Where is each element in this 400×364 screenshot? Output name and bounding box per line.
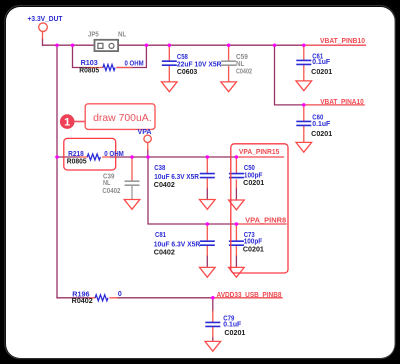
svg-text:0: 0 xyxy=(118,291,122,298)
svg-text:0 OHM: 0 OHM xyxy=(125,60,144,67)
svg-text:C0402: C0402 xyxy=(236,69,252,76)
svg-text:C38: C38 xyxy=(154,165,165,172)
svg-text:100pF: 100pF xyxy=(244,172,263,179)
svg-text:R218: R218 xyxy=(68,151,84,158)
svg-text:R0805: R0805 xyxy=(79,68,99,75)
svg-text:VBAT_PINB10: VBAT_PINB10 xyxy=(320,38,365,45)
svg-text:0.1uF: 0.1uF xyxy=(223,322,242,329)
svg-text:1: 1 xyxy=(64,117,70,129)
svg-text:AVDD33_USB_PINB8: AVDD33_USB_PINB8 xyxy=(217,292,282,299)
svg-text:C0402: C0402 xyxy=(154,250,175,257)
svg-text:NL: NL xyxy=(236,61,245,68)
svg-text:VBAT_PINA10: VBAT_PINA10 xyxy=(320,99,364,106)
svg-text:0.1uF: 0.1uF xyxy=(312,59,331,66)
svg-text:JP5: JP5 xyxy=(88,31,99,38)
svg-text:C0201: C0201 xyxy=(311,69,332,76)
svg-text:VPA_PINR8: VPA_PINR8 xyxy=(245,217,286,224)
svg-text:10uF 6.3V X5R: 10uF 6.3V X5R xyxy=(154,241,201,248)
svg-text:0 OHM: 0 OHM xyxy=(104,151,124,158)
svg-text:NL: NL xyxy=(118,31,127,38)
svg-text:draw 700uA.: draw 700uA. xyxy=(93,113,151,124)
svg-text:NL: NL xyxy=(103,180,111,187)
svg-text:R0805: R0805 xyxy=(67,158,87,165)
svg-text:C0201: C0201 xyxy=(311,131,332,138)
svg-text:100pF: 100pF xyxy=(244,239,263,246)
svg-text:C81: C81 xyxy=(155,232,166,239)
svg-text:10uF 6.3V X5R: 10uF 6.3V X5R xyxy=(154,174,199,181)
svg-text:R0402: R0402 xyxy=(72,298,93,305)
svg-text:C0201: C0201 xyxy=(224,330,245,337)
svg-text:+3.3V_DUT: +3.3V_DUT xyxy=(28,16,64,23)
svg-text:C50: C50 xyxy=(244,165,255,172)
svg-text:C0402: C0402 xyxy=(154,182,175,189)
svg-text:C58: C58 xyxy=(177,54,188,61)
svg-text:22uF 10V X5R: 22uF 10V X5R xyxy=(177,62,222,69)
svg-text:C0402: C0402 xyxy=(102,188,120,195)
svg-text:C0201: C0201 xyxy=(243,247,264,254)
svg-text:VPA: VPA xyxy=(138,129,152,136)
svg-text:R103: R103 xyxy=(81,60,98,67)
svg-text:C0201: C0201 xyxy=(243,180,264,187)
svg-text:C0603: C0603 xyxy=(177,69,197,76)
svg-text:VPA_PINR15: VPA_PINR15 xyxy=(239,149,279,156)
svg-text:0.1uF: 0.1uF xyxy=(312,121,331,128)
